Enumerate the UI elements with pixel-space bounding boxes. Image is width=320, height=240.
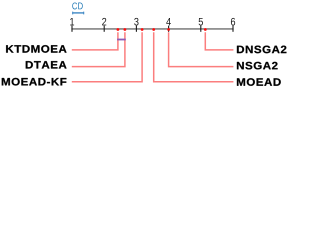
label KTDMOEA: [6, 45, 66, 53]
CD interval bar: [72, 12, 84, 15]
tick 6: [232, 26, 234, 32]
axis number 1: [70, 18, 74, 25]
KTDMOEA dot: [117, 28, 120, 31]
axis number 5: [199, 18, 203, 26]
label DNSGA2: [237, 46, 286, 54]
label MOEAD-KF: [2, 78, 67, 86]
axis number 3: [134, 18, 138, 26]
CD diagram: [0, 0, 291, 90]
label DTAEA: [26, 61, 67, 68]
axis number 4: [166, 18, 171, 25]
CD label: [72, 2, 82, 9]
DTAEA connector: [72, 32, 125, 66]
axis number 6: [231, 18, 235, 26]
NSGA2 dot: [167, 28, 170, 31]
tick 4: [168, 26, 170, 32]
MOEAD connector: [154, 32, 234, 81]
MOEAD-KF connector: [72, 32, 142, 81]
DNSGA2 connector: [205, 32, 233, 50]
tick 5: [200, 26, 202, 32]
NSGA2 connector: [169, 32, 234, 66]
KTDMOEA connector: [72, 32, 118, 50]
axis number 2: [102, 18, 106, 26]
tick 2: [103, 26, 105, 32]
DTAEA dot: [124, 28, 127, 31]
MOEAD dot: [152, 28, 155, 31]
DNSGA2 dot: [204, 28, 207, 31]
MOEAD-KF dot: [141, 28, 144, 31]
clique bar KTDMOEA-DTAEA: [117, 39, 126, 41]
tick 3: [135, 26, 137, 32]
label NSGA2: [237, 62, 278, 70]
axis line: [71, 28, 233, 30]
label MOEAD: [237, 78, 281, 86]
tick 1: [71, 26, 73, 32]
